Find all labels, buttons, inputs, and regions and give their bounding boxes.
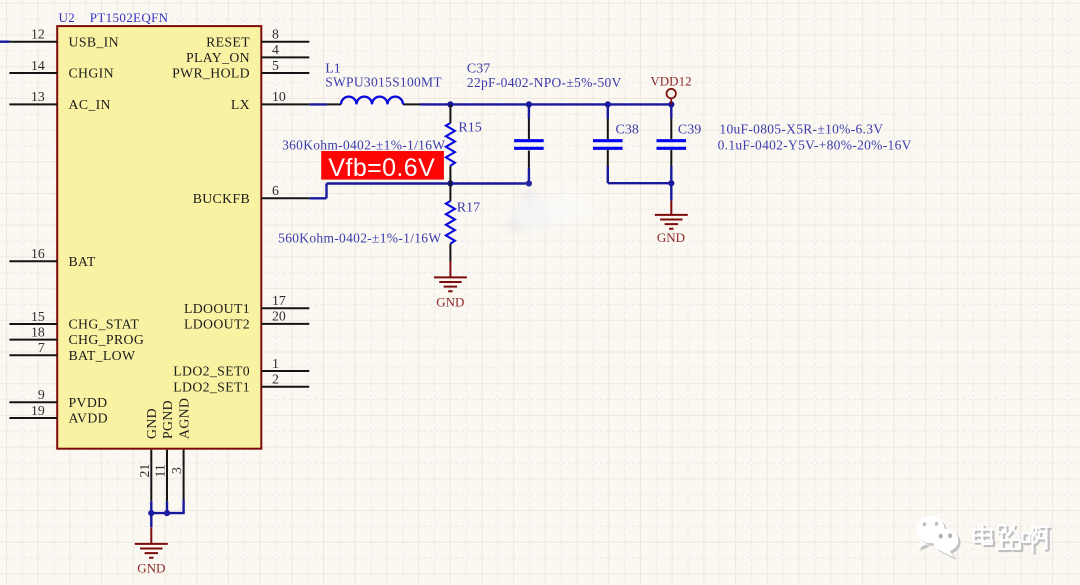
svg-text:17: 17 bbox=[272, 293, 286, 308]
pin 12 USB_IN bbox=[9, 27, 119, 50]
svg-text:16: 16 bbox=[31, 246, 45, 261]
ground symbol below IC bbox=[135, 527, 168, 575]
pin 6 BUCKFB bbox=[193, 183, 310, 206]
svg-text:0.1uF-0402-Y5V-+80%-20%-16V: 0.1uF-0402-Y5V-+80%-20%-16V bbox=[718, 138, 912, 153]
svg-text:R17: R17 bbox=[457, 201, 480, 216]
pin 14 CHGIN bbox=[9, 58, 114, 81]
pin 4 PLAY_ON bbox=[186, 42, 309, 65]
ground symbol below C39 bbox=[655, 201, 688, 246]
pin 18 CHG_PROG bbox=[9, 324, 144, 347]
pin 11 PGND bbox=[153, 400, 175, 501]
capacitor C38 bbox=[593, 119, 639, 167]
node junction R15 R17 feedback bbox=[447, 180, 453, 186]
svg-text:14: 14 bbox=[31, 58, 45, 73]
pin 19 AVDD bbox=[9, 403, 108, 426]
svg-text:18: 18 bbox=[31, 324, 45, 339]
wire C39 bottom to ground bbox=[670, 183, 672, 200]
node junction GND PGND bbox=[148, 510, 154, 516]
node junction PGND AGND bbox=[164, 510, 170, 516]
svg-text:GND: GND bbox=[436, 294, 464, 309]
annotation Vfb=0.6V red callout bbox=[321, 151, 444, 182]
node junction C37 bottom feedback bbox=[526, 180, 532, 186]
svg-text:11: 11 bbox=[153, 464, 168, 477]
resistor R15 bbox=[446, 104, 482, 183]
svg-text:AVDD: AVDD bbox=[69, 411, 108, 426]
white smudge artifact near feedback junction bbox=[505, 185, 592, 232]
capacitor C37 bbox=[467, 61, 622, 167]
svg-text:LDO2_SET1: LDO2_SET1 bbox=[173, 379, 250, 394]
svg-text:13: 13 bbox=[31, 89, 45, 104]
svg-text:CHG_STAT: CHG_STAT bbox=[69, 317, 140, 332]
pin 7 BAT_LOW bbox=[9, 340, 135, 363]
svg-text:4: 4 bbox=[272, 42, 279, 57]
svg-text:BUCKFB: BUCKFB bbox=[193, 191, 250, 206]
svg-text:8: 8 bbox=[272, 27, 279, 42]
svg-text:AC_IN: AC_IN bbox=[69, 97, 111, 112]
pin 10 LX bbox=[231, 89, 309, 112]
resistor R17 bbox=[446, 184, 480, 262]
svg-text:22pF-0402-NPO-±5%-50V: 22pF-0402-NPO-±5%-50V bbox=[467, 75, 622, 90]
svg-text:VDD12: VDD12 bbox=[650, 74, 691, 89]
svg-text:LDO2_SET0: LDO2_SET0 bbox=[173, 364, 250, 379]
svg-text:LX: LX bbox=[231, 97, 250, 112]
svg-text:GND: GND bbox=[144, 408, 159, 439]
wire top rail VDD12 net bbox=[450, 103, 671, 105]
svg-text:GND: GND bbox=[657, 230, 685, 245]
wire GND pin 21 to junction bbox=[150, 501, 152, 513]
pin 2 LDO2_SET1 bbox=[173, 372, 309, 395]
pin 13 AC_IN bbox=[9, 89, 110, 112]
pin 21 GND bbox=[137, 408, 159, 501]
wire LX pin to inductor L1 bbox=[309, 103, 327, 105]
node junction L1 R15 bbox=[447, 101, 453, 107]
svg-text:LDOOUT1: LDOOUT1 bbox=[184, 301, 250, 316]
wire BUCKFB pin to riser bbox=[309, 197, 326, 199]
pin 15 CHG_STAT bbox=[9, 309, 139, 332]
inductor L1 bbox=[325, 61, 442, 104]
node junction C37 top bbox=[526, 101, 532, 107]
svg-text:BAT_LOW: BAT_LOW bbox=[69, 348, 136, 363]
pin 20 LDOOUT2 bbox=[184, 309, 309, 332]
wire feedback rail bbox=[327, 182, 529, 184]
wire PGND pin 11 to junction bbox=[166, 501, 168, 513]
pin 1 LDO2_SET0 bbox=[173, 356, 309, 379]
svg-text:19: 19 bbox=[31, 403, 45, 418]
svg-text:CHGIN: CHGIN bbox=[69, 66, 114, 81]
wire C38 top connection bbox=[607, 104, 609, 118]
svg-text:AGND: AGND bbox=[177, 398, 192, 439]
wire C37 top connection bbox=[528, 104, 530, 118]
svg-text:15: 15 bbox=[31, 309, 45, 324]
svg-text:USB_IN: USB_IN bbox=[69, 34, 119, 49]
svg-text:BAT: BAT bbox=[69, 254, 96, 269]
node junction C39 VDD12 bbox=[668, 101, 674, 107]
pin 3 AGND bbox=[169, 398, 191, 500]
wire inductor L1 to top rail bbox=[420, 103, 450, 105]
capacitor C39 bbox=[657, 119, 702, 167]
svg-text:360Kohm-0402-±1%-1/16W: 360Kohm-0402-±1%-1/16W bbox=[282, 137, 445, 152]
svg-text:PVDD: PVDD bbox=[69, 395, 108, 410]
svg-text:R15: R15 bbox=[458, 121, 481, 136]
wire C38 bottom connection bbox=[607, 166, 609, 183]
svg-text:21: 21 bbox=[137, 464, 152, 478]
svg-text:U2: U2 bbox=[59, 10, 76, 25]
svg-text:6: 6 bbox=[272, 183, 279, 198]
wire bottom ground rail bbox=[151, 513, 167, 527]
ground symbol below R17 bbox=[434, 261, 467, 309]
svg-text:10: 10 bbox=[272, 89, 286, 104]
svg-text:SWPU3015S100MT: SWPU3015S100MT bbox=[325, 75, 442, 90]
svg-text:9: 9 bbox=[38, 387, 45, 402]
node junction C38 top bbox=[605, 101, 611, 107]
svg-text:5: 5 bbox=[272, 58, 279, 73]
svg-text:C39: C39 bbox=[678, 122, 701, 137]
svg-text:20: 20 bbox=[272, 309, 286, 324]
node junction C39 bottom ground bbox=[668, 180, 674, 186]
wire stub at pin 12 bbox=[0, 41, 9, 43]
svg-text:GND: GND bbox=[137, 560, 165, 575]
svg-text:CHG_PROG: CHG_PROG bbox=[69, 332, 145, 347]
wire AGND pin 3 to junction bbox=[167, 500, 184, 514]
svg-text:12: 12 bbox=[31, 27, 45, 42]
svg-text:7: 7 bbox=[38, 340, 45, 355]
watermark WeChat logo and caption bbox=[916, 516, 1050, 560]
wire BUCKFB riser bbox=[325, 184, 327, 199]
svg-text:RESET: RESET bbox=[206, 34, 250, 49]
wire C37 bottom connection bbox=[528, 168, 530, 184]
svg-text:C38: C38 bbox=[616, 122, 639, 137]
svg-text:PLAY_ON: PLAY_ON bbox=[186, 50, 250, 65]
svg-text:10uF-0805-X5R-±10%-6.3V: 10uF-0805-X5R-±10%-6.3V bbox=[719, 122, 883, 137]
svg-text:Vfb=0.6V: Vfb=0.6V bbox=[328, 154, 435, 182]
wire C39 bottom connection bbox=[670, 166, 672, 183]
svg-text:560Kohm-0402-±1%-1/16W: 560Kohm-0402-±1%-1/16W bbox=[278, 230, 441, 245]
pin 17 LDOOUT1 bbox=[184, 293, 309, 316]
svg-text:3: 3 bbox=[169, 467, 184, 474]
wire C39 top connection bbox=[670, 104, 672, 118]
svg-text:2: 2 bbox=[272, 372, 279, 387]
pin 8 RESET bbox=[206, 27, 309, 50]
svg-text:1: 1 bbox=[272, 356, 279, 371]
svg-text:PT1502EQFN: PT1502EQFN bbox=[90, 10, 169, 25]
svg-text:PGND: PGND bbox=[160, 400, 175, 439]
svg-text:PWR_HOLD: PWR_HOLD bbox=[172, 66, 250, 81]
IC U2 PT1502EQFN body bbox=[57, 26, 261, 449]
wire C38 to C39 bottom rail bbox=[608, 182, 672, 184]
power port VDD12 bbox=[650, 74, 691, 105]
svg-text:LDOOUT2: LDOOUT2 bbox=[184, 317, 250, 332]
pin 5 PWR_HOLD bbox=[172, 58, 309, 81]
pin 9 PVDD bbox=[9, 387, 107, 410]
pin 16 BAT bbox=[9, 246, 95, 269]
